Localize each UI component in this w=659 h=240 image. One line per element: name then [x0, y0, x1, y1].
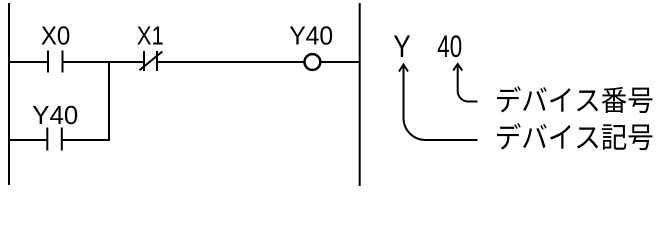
wire: X0 to X1 [64, 61, 144, 63]
svg-text:Y: Y [393, 28, 411, 64]
junction wire (parallel branch) [108, 62, 110, 139]
wire: X1 to coil [158, 61, 304, 63]
contact X1 (NC) [144, 51, 157, 71]
wire: coil to right rail [321, 61, 359, 63]
left power rail [8, 3, 10, 185]
arrow to device number (under 40) [458, 66, 478, 102]
contact X0 (NO) [48, 51, 63, 73]
X1 slash [140, 52, 163, 71]
svg-text:X1: X1 [137, 21, 164, 51]
label device-symbol (Japanese) [497, 123, 652, 150]
contact Y40 (NO, parallel) [47, 128, 62, 151]
svg-text:X0: X0 [41, 21, 71, 51]
coil Y40 [305, 54, 321, 70]
wire: left rail to X0 [9, 61, 48, 63]
svg-text:Y40: Y40 [32, 100, 78, 130]
label device-number (Japanese) [497, 86, 652, 113]
svg-text:40: 40 [437, 28, 462, 64]
svg-text:Y40: Y40 [289, 21, 333, 51]
wire: left rail to Y40 contact [9, 139, 47, 141]
right power rail [359, 3, 361, 186]
wire: Y40 contact to junction [63, 139, 110, 141]
arrow to device symbol (under Y) [404, 66, 478, 140]
